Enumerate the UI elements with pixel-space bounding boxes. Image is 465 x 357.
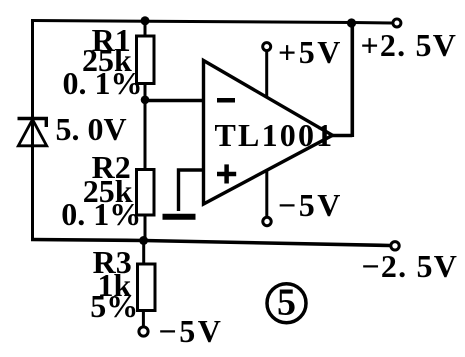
svg-text:5%: 5% xyxy=(90,288,138,324)
svg-text:TL1001: TL1001 xyxy=(215,117,335,153)
svg-text:−5V: −5V xyxy=(278,187,343,223)
svg-text:−2. 5V: −2. 5V xyxy=(362,248,459,284)
svg-text:−5V: −5V xyxy=(159,313,224,349)
svg-text:+5V: +5V xyxy=(278,34,343,70)
svg-text:0. 1%: 0. 1% xyxy=(61,196,141,232)
svg-text:5. 0V: 5. 0V xyxy=(56,111,127,147)
svg-text:5: 5 xyxy=(277,282,296,324)
svg-text:0. 1%: 0. 1% xyxy=(63,65,143,101)
svg-text:+2. 5V: +2. 5V xyxy=(361,27,458,63)
